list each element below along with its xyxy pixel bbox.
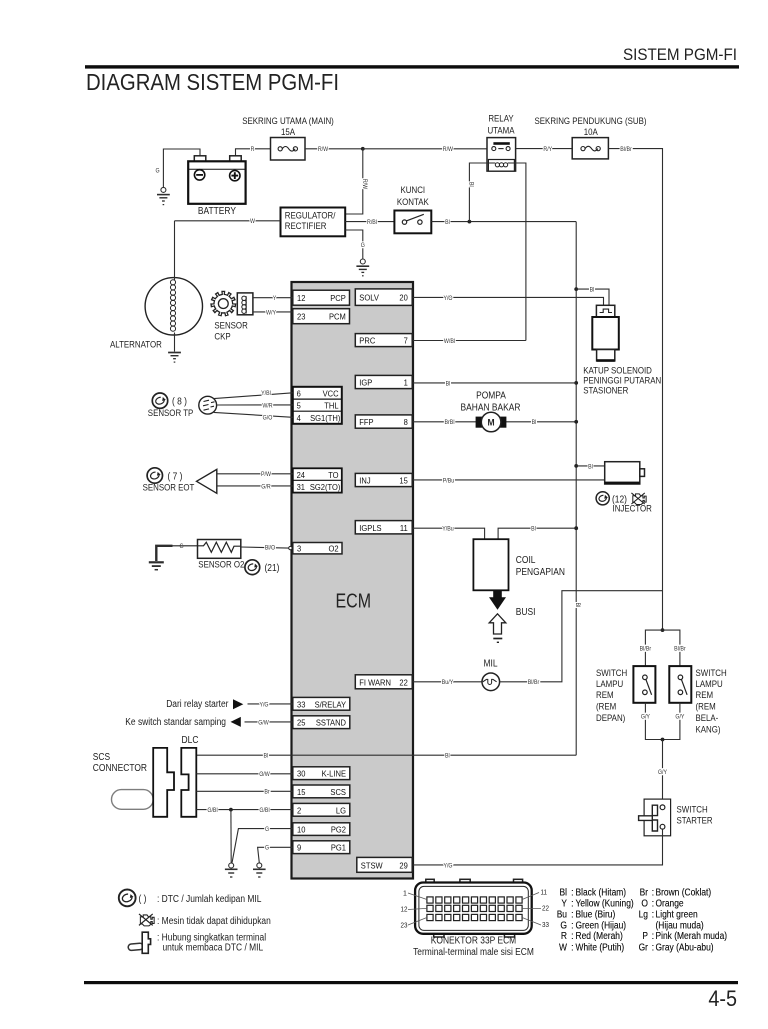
- svg-text:G: G: [361, 242, 365, 249]
- busi arrow black: [489, 590, 506, 610]
- pin SOLV 20: [355, 289, 412, 306]
- svg-text:Gray (Abu-abu): Gray (Abu-abu): [656, 942, 714, 953]
- svg-text:G: G: [265, 845, 269, 852]
- wire W alternator to regulator: [175, 220, 281, 222]
- wire G/O to pin 4: [214, 412, 293, 417]
- svg-text:R: R: [251, 146, 255, 153]
- svg-text:SWITCH: SWITCH: [677, 804, 708, 814]
- svg-text:K-LINE: K-LINE: [322, 769, 347, 779]
- svg-text:Light green: Light green: [656, 910, 698, 921]
- DTC icon (21): [245, 560, 260, 575]
- pin 23 PCM: [293, 309, 350, 324]
- svg-text:G/Y: G/Y: [675, 714, 685, 721]
- svg-text:R/W: R/W: [443, 146, 454, 153]
- svg-text:15A: 15A: [281, 127, 296, 137]
- svg-text:G: G: [155, 168, 159, 175]
- svg-text:PENINGGI PUTARAN: PENINGGI PUTARAN: [583, 376, 661, 386]
- node junction brake split: [661, 628, 665, 632]
- DTC icon legend: [119, 890, 136, 907]
- svg-text:PCP: PCP: [330, 293, 346, 303]
- svg-text:(21): (21): [265, 563, 280, 574]
- svg-text:Bl: Bl: [264, 753, 269, 760]
- wire P/Bu pin 15 to injector: [413, 479, 605, 481]
- relay utama: [487, 138, 516, 172]
- svg-text:W/Bl: W/Bl: [444, 338, 455, 345]
- svg-text:(Hijau muda): (Hijau muda): [656, 920, 704, 931]
- svg-text:ALTERNATOR: ALTERNATOR: [110, 340, 162, 350]
- svg-text::: :: [571, 920, 574, 931]
- pin 12 PCP: [293, 290, 350, 305]
- svg-text:INJ: INJ: [359, 476, 370, 486]
- svg-text:O/W: O/W: [259, 771, 270, 778]
- ground (regulator): [356, 259, 369, 276]
- svg-text:INJECTOR: INJECTOR: [613, 504, 653, 514]
- engine icon legend: [139, 914, 154, 926]
- svg-text:STASIONER: STASIONER: [583, 386, 628, 396]
- header rule: [85, 65, 739, 68]
- svg-text:DEPAN): DEPAN): [596, 713, 625, 723]
- wire junction to relay: [363, 148, 487, 150]
- wire Bl pin 1 IGP: [413, 382, 576, 384]
- node junction R/W: [361, 147, 365, 151]
- wire R/W drop to regulator: [345, 149, 363, 214]
- wire BrBl pin 8 to pump: [413, 421, 478, 423]
- pin 25 SSTAND: [293, 716, 350, 729]
- svg-text:CONNECTOR: CONNECTOR: [93, 763, 147, 774]
- svg-text:R/W: R/W: [318, 146, 329, 153]
- ground (battery): [157, 187, 170, 204]
- node junction Bl solenoid: [574, 287, 578, 291]
- wire Br to pin 15: [196, 790, 292, 792]
- ground (busi): [493, 638, 502, 640]
- svg-text:15: 15: [297, 787, 306, 797]
- svg-text:15: 15: [399, 476, 408, 486]
- ECM U1 body: [292, 282, 414, 879]
- svg-text::: :: [652, 910, 655, 921]
- svg-text:LAMPU: LAMPU: [696, 679, 723, 689]
- svg-text:LAMPU: LAMPU: [596, 679, 623, 689]
- wire G/W to pin 25: [245, 721, 293, 723]
- svg-text:8: 8: [404, 417, 408, 427]
- svg-text:G: G: [265, 826, 269, 833]
- svg-text:SENSOR EOT: SENSOR EOT: [143, 482, 195, 492]
- arrow left: [231, 717, 241, 727]
- wire G pin 9 to ground: [258, 847, 293, 863]
- pin FFP 8: [355, 415, 412, 428]
- wire regulator to kunci kontak: [345, 221, 394, 223]
- svg-text:M: M: [488, 418, 495, 429]
- svg-text:33: 33: [297, 699, 306, 709]
- svg-text:G/Y: G/Y: [658, 769, 668, 776]
- svg-text:Bl: Bl: [446, 380, 451, 387]
- svg-text:( 8 ): ( 8 ): [172, 397, 187, 408]
- svg-text:Green (Hijau): Green (Hijau): [576, 920, 627, 931]
- wire Y/G to pin 33: [248, 703, 293, 705]
- svg-text:PG1: PG1: [331, 843, 346, 853]
- svg-text:VCC: VCC: [323, 389, 339, 399]
- pin IGPLS 11: [355, 521, 412, 534]
- SCS connector body: [153, 748, 174, 817]
- SCS connector cap: [112, 790, 154, 810]
- svg-text:W/Y: W/Y: [266, 309, 277, 316]
- svg-text::: :: [571, 899, 574, 910]
- svg-text:Bl: Bl: [445, 753, 450, 760]
- svg-text:SWITCH: SWITCH: [596, 668, 627, 678]
- pin 30 K-LINE: [293, 767, 350, 780]
- svg-text:Black (Hitam): Black (Hitam): [576, 888, 627, 899]
- svg-text:P/W: P/W: [261, 471, 272, 478]
- svg-text:RELAY: RELAY: [488, 114, 513, 124]
- wire Bl to solenoid: [576, 289, 609, 305]
- wire Bl coil to main line: [498, 528, 576, 539]
- svg-text:W/R: W/R: [262, 402, 273, 409]
- svg-text:SEKRING PENDUKUNG (SUB): SEKRING PENDUKUNG (SUB): [535, 116, 647, 126]
- svg-text:Pink (Merah muda): Pink (Merah muda): [656, 931, 728, 942]
- wire Y/G switch starter to pin 29: [413, 829, 663, 865]
- svg-text:KONTAK: KONTAK: [397, 197, 430, 207]
- switch lampu rem belakang: [669, 666, 691, 703]
- konektor 33P tabs top: [426, 879, 434, 885]
- svg-text:STSW: STSW: [361, 860, 384, 870]
- sensor TP connector: [199, 396, 217, 414]
- svg-text:29: 29: [399, 860, 408, 870]
- svg-text:P: P: [642, 931, 648, 942]
- svg-text:S/RELAY: S/RELAY: [315, 699, 347, 709]
- svg-text:11: 11: [400, 523, 408, 533]
- svg-text::: :: [652, 931, 655, 942]
- svg-text:23: 23: [401, 923, 408, 930]
- fuse main 15A: [271, 138, 306, 161]
- svg-text:KUNCI: KUNCI: [401, 185, 426, 195]
- svg-text:R: R: [561, 931, 567, 942]
- wire ground drop G/Bl: [230, 810, 232, 863]
- svg-text:7: 7: [404, 336, 408, 346]
- svg-text:BrBl: BrBl: [445, 419, 455, 426]
- svg-text::: :: [571, 931, 574, 942]
- pin PRC 7: [355, 334, 412, 347]
- wire brake switch split: [645, 630, 680, 666]
- ground (PG1): [253, 863, 266, 877]
- svg-text:IGPLS: IGPLS: [359, 523, 382, 533]
- svg-text:33: 33: [542, 922, 549, 929]
- svg-text:SSTAND: SSTAND: [316, 718, 346, 728]
- svg-text:4: 4: [297, 413, 301, 423]
- svg-text:9: 9: [297, 843, 301, 853]
- svg-text:20: 20: [399, 293, 408, 303]
- svg-text:KATUP SOLENOID: KATUP SOLENOID: [583, 365, 652, 375]
- battery B1: [188, 156, 245, 204]
- node junction G/Bl ground: [229, 808, 233, 812]
- svg-text:PRC: PRC: [359, 336, 375, 346]
- svg-text:SCS: SCS: [93, 752, 111, 763]
- svg-text:12: 12: [297, 293, 306, 303]
- svg-text:Br: Br: [264, 789, 270, 796]
- wire relay coil right drop to pin7: [514, 163, 526, 341]
- node junction brake join: [661, 738, 665, 742]
- svg-text:REGULATOR/: REGULATOR/: [285, 211, 336, 221]
- node junction Bl relay coil: [468, 220, 472, 224]
- svg-text:Bl/O: Bl/O: [265, 545, 275, 552]
- svg-text::: :: [571, 888, 574, 899]
- node junction coil: [574, 526, 578, 530]
- svg-text:Y/G: Y/G: [259, 701, 268, 708]
- svg-text:SG2(TO): SG2(TO): [310, 482, 341, 492]
- svg-text:G/Bl: G/Bl: [259, 807, 269, 814]
- katup solenoid: [592, 305, 619, 362]
- svg-text:O: O: [641, 899, 648, 910]
- konektor 33P body: [415, 883, 532, 934]
- main vertical Bl line: [575, 222, 577, 756]
- sensor CKP pickup coil: [237, 293, 253, 315]
- svg-text:W: W: [559, 942, 568, 953]
- ground (alternator): [168, 353, 181, 363]
- svg-text:W: W: [250, 218, 256, 225]
- svg-text:Bu/Y: Bu/Y: [442, 679, 454, 686]
- svg-text:(REM: (REM: [696, 702, 716, 712]
- svg-text:Y: Y: [561, 899, 567, 910]
- svg-text:3: 3: [297, 543, 301, 553]
- svg-text:Dari relay starter: Dari relay starter: [166, 699, 229, 710]
- wire G/Bl to pin 2: [196, 809, 292, 811]
- svg-text:PG2: PG2: [331, 825, 346, 835]
- svg-text:R/Y: R/Y: [543, 146, 552, 153]
- switch starter: [639, 799, 671, 836]
- pin 33 S/RELAY: [293, 697, 350, 710]
- wire Y/Bl to pin 6: [214, 393, 293, 399]
- wire G pin 10 to ground: [232, 829, 293, 863]
- injector: [605, 462, 645, 485]
- svg-text:Bl/Br: Bl/Br: [640, 646, 652, 653]
- svg-text:DIAGRAM SISTEM PGM-FI: DIAGRAM SISTEM PGM-FI: [86, 69, 339, 95]
- DTC icon (8): [152, 393, 167, 408]
- svg-text:G/Bl: G/Bl: [207, 807, 217, 814]
- svg-text:POMPA: POMPA: [476, 390, 506, 401]
- svg-text:23: 23: [297, 312, 306, 322]
- svg-text:25: 25: [297, 718, 306, 728]
- switch lampu rem depan: [633, 666, 655, 703]
- pin INJ 15: [355, 473, 412, 486]
- svg-text:Bl: Bl: [445, 219, 450, 226]
- wire W/Y to pin 23: [253, 311, 293, 313]
- wire regulator G to ground: [345, 230, 363, 259]
- wire Bl pump to main line: [504, 421, 576, 423]
- svg-text:KANG): KANG): [696, 724, 721, 734]
- wire Bl DLC feed crossing ECM: [196, 754, 576, 756]
- node open circle at pin 3: [289, 546, 292, 549]
- node junction pump: [574, 420, 578, 424]
- pin 15 SCS: [293, 785, 350, 798]
- svg-text:Bl/Br: Bl/Br: [528, 679, 540, 686]
- pin group 6 VCC / 5 THL / 4 SG1(TH): [293, 387, 342, 424]
- wire W/Bl pin 7 PRC: [413, 340, 526, 342]
- svg-text:R/Bl: R/Bl: [367, 219, 377, 226]
- svg-text:: Mesin tidak dapat dihidupkan: : Mesin tidak dapat dihidupkan: [157, 916, 271, 927]
- svg-text:untuk membaca DTC / MIL: untuk membaca DTC / MIL: [163, 942, 264, 953]
- svg-text:R/W: R/W: [361, 179, 368, 190]
- svg-text:G/Y: G/Y: [641, 714, 651, 721]
- svg-text:O2: O2: [329, 543, 339, 553]
- svg-text:5: 5: [297, 401, 301, 411]
- svg-text:IGP: IGP: [359, 378, 372, 388]
- wire battery minus to ground: [163, 149, 200, 187]
- wire Y/O pin 20 to solenoid: [413, 297, 604, 305]
- svg-text:MIL: MIL: [483, 658, 498, 669]
- svg-text:Bl/Br: Bl/Br: [674, 646, 686, 653]
- svg-text:G/W: G/W: [258, 719, 269, 726]
- svg-text:ECM: ECM: [336, 591, 372, 613]
- svg-text::: :: [652, 899, 655, 910]
- svg-text:FFP: FFP: [359, 417, 374, 427]
- pin 10 PG2: [293, 823, 350, 836]
- konektor 33P tabs bottom: [434, 929, 444, 937]
- svg-text:G: G: [560, 920, 567, 931]
- ground (sensor O2): [149, 546, 173, 570]
- svg-text:Brown (Coklat): Brown (Coklat): [656, 888, 712, 899]
- svg-text:Gr: Gr: [639, 942, 649, 953]
- svg-text:SCS: SCS: [330, 787, 346, 797]
- svg-text:Lg: Lg: [639, 910, 648, 921]
- coil pengapian: [473, 539, 508, 590]
- svg-text:Bl: Bl: [467, 182, 474, 187]
- svg-text:22: 22: [399, 677, 408, 687]
- svg-text:PENGAPIAN: PENGAPIAN: [516, 567, 565, 578]
- busi spark arrow white: [489, 614, 506, 634]
- node junction IGP: [574, 381, 578, 385]
- engine icon (injector): [631, 493, 646, 505]
- svg-text:Y/Bu: Y/Bu: [442, 526, 454, 533]
- wire relay to sub fuse: [516, 148, 573, 150]
- pin 9 PG1: [293, 841, 350, 854]
- svg-text:Yellow (Kuning): Yellow (Kuning): [576, 899, 634, 910]
- wire kunci kontak to main Bl line: [431, 221, 576, 223]
- svg-text:12: 12: [401, 907, 408, 914]
- sensor CKP gear: [211, 291, 236, 315]
- DLC connector body: [181, 748, 196, 817]
- svg-text:4-5: 4-5: [708, 986, 737, 1011]
- svg-text:SG1(TH): SG1(TH): [310, 413, 340, 423]
- svg-text:Br: Br: [640, 888, 649, 899]
- wire G/Y down to switch starter: [662, 740, 664, 806]
- sensor O2 resistor: [173, 540, 241, 559]
- svg-text:REM: REM: [596, 690, 614, 700]
- svg-text:SISTEM PGM-FI: SISTEM PGM-FI: [623, 46, 737, 64]
- svg-text:THL: THL: [324, 401, 338, 411]
- svg-text:10A: 10A: [584, 127, 599, 137]
- svg-text:30: 30: [297, 769, 306, 779]
- svg-text:SOLV: SOLV: [359, 293, 379, 303]
- pin FI WARN 22: [355, 675, 412, 689]
- svg-text:6: 6: [297, 389, 301, 399]
- svg-text:Bl: Bl: [560, 888, 568, 899]
- wire O/W to pin 30: [196, 773, 292, 775]
- svg-text:SWITCH: SWITCH: [696, 668, 727, 678]
- wire relay coil left to Bl line: [469, 163, 488, 222]
- footer rule: [84, 981, 738, 984]
- svg-text::: :: [652, 942, 655, 953]
- svg-text:UTAMA: UTAMA: [487, 126, 515, 136]
- svg-text:24: 24: [297, 470, 306, 480]
- svg-text::: :: [652, 888, 655, 899]
- svg-text:: DTC / Jumlah kedipan MIL: : DTC / Jumlah kedipan MIL: [157, 894, 262, 905]
- svg-text:DLC: DLC: [182, 735, 199, 746]
- svg-text:BUSI: BUSI: [516, 607, 536, 618]
- svg-text:22: 22: [542, 906, 549, 913]
- svg-text:Bl: Bl: [531, 526, 536, 533]
- fuel pump motor M: [476, 412, 507, 432]
- svg-text:SENSOR O2: SENSOR O2: [198, 559, 244, 569]
- svg-text:Y: Y: [273, 295, 277, 302]
- svg-text:Bl: Bl: [588, 463, 593, 470]
- regulator/rectifier: [281, 208, 346, 237]
- wire sub fuse Bl/Br to right drop: [608, 149, 662, 630]
- svg-text:G/R: G/R: [261, 483, 271, 490]
- svg-text:Bl/Br: Bl/Br: [620, 146, 632, 153]
- wire Bl/Br MIL return: [500, 591, 663, 682]
- svg-text:31: 31: [297, 482, 306, 492]
- svg-text:Y/G: Y/G: [443, 862, 452, 869]
- wire brake switch join G/Y: [645, 703, 680, 740]
- svg-text:11: 11: [541, 890, 548, 897]
- svg-text:( 7 ): ( 7 ): [168, 471, 183, 482]
- wire W/R to pin 5: [217, 404, 293, 406]
- wire Bl/O to pin 3: [241, 547, 289, 548]
- svg-text:White (Putih): White (Putih): [576, 942, 625, 953]
- svg-text::: :: [571, 942, 574, 953]
- svg-text:SEKRING UTAMA (MAIN): SEKRING UTAMA (MAIN): [242, 116, 334, 126]
- pin group 24 TO / 31 SG2(TO): [293, 468, 342, 492]
- wire Y/Bu pin 11 to coil: [413, 528, 485, 539]
- svg-text:P/Bu: P/Bu: [443, 477, 455, 484]
- svg-text:Orange: Orange: [656, 899, 685, 910]
- DTC icon (7): [147, 468, 162, 483]
- wire P/W to pin 24: [217, 473, 293, 475]
- svg-text:10: 10: [297, 825, 306, 835]
- svg-text:STARTER: STARTER: [677, 816, 713, 826]
- wire fuse to junction: [305, 148, 363, 150]
- svg-text:BATTERY: BATTERY: [198, 206, 236, 217]
- svg-text:Y/Bl: Y/Bl: [261, 390, 271, 397]
- ground (PG2/LG): [225, 863, 238, 877]
- svg-text:1: 1: [403, 891, 407, 898]
- svg-text:REM: REM: [696, 690, 714, 700]
- sensor EOT symbol: [197, 469, 217, 493]
- svg-text:Terminal-terminal male sisi EC: Terminal-terminal male sisi ECM: [413, 947, 534, 958]
- jumper connector icon legend: [128, 932, 151, 953]
- svg-text:Blue (Biru): Blue (Biru): [576, 910, 616, 921]
- wire battery plus to main fuse: [236, 149, 271, 161]
- svg-text:Ke switch standar samping: Ke switch standar samping: [125, 717, 226, 728]
- pin STSW 29: [357, 857, 412, 872]
- svg-text:Bl: Bl: [574, 603, 581, 608]
- svg-text:SENSOR TP: SENSOR TP: [148, 408, 194, 418]
- svg-text:(REM: (REM: [596, 702, 616, 712]
- wire Y to pin 12: [253, 297, 293, 299]
- svg-text:PCM: PCM: [329, 312, 346, 322]
- node junction injector: [574, 464, 578, 468]
- svg-text:RECTIFIER: RECTIFIER: [285, 221, 327, 231]
- pin 2 LG: [293, 803, 350, 816]
- svg-text:Red (Merah): Red (Merah): [576, 931, 623, 942]
- pin IGP 1: [355, 375, 412, 388]
- svg-text:KONEKTOR 33P ECM: KONEKTOR 33P ECM: [431, 936, 516, 947]
- MIL lamp: [482, 673, 500, 691]
- svg-text:CKP: CKP: [214, 332, 230, 342]
- fuse sub 10A: [572, 138, 608, 159]
- wire Bu/Y pin 22 to MIL: [413, 681, 482, 683]
- svg-text:Bl: Bl: [590, 287, 595, 294]
- svg-text::: :: [571, 910, 574, 921]
- svg-text:LG: LG: [336, 805, 346, 815]
